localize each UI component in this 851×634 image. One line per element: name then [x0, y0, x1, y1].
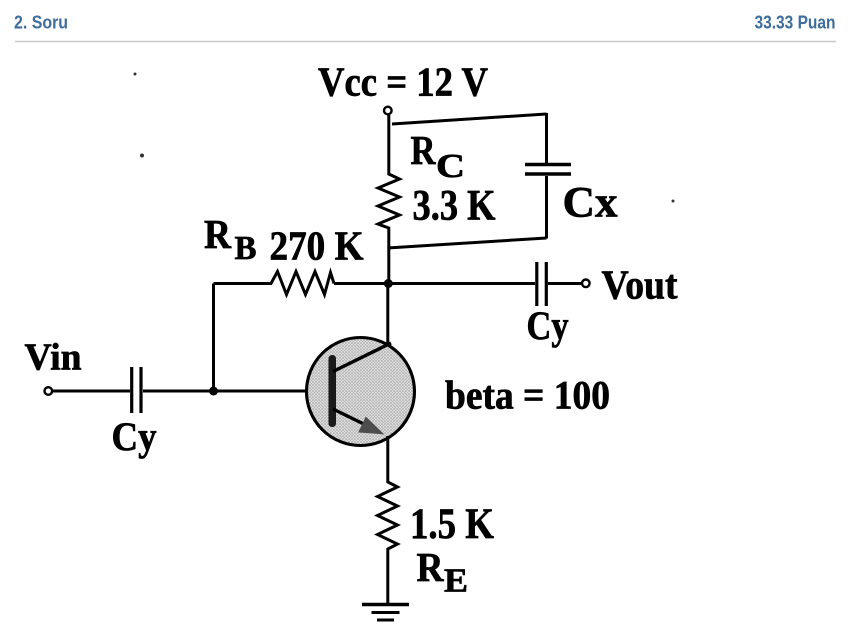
- wire Cy output to Vout terminal: [548, 282, 582, 285]
- node collector junction: [384, 279, 393, 288]
- wire box bottom (Cx to collector branch): [388, 238, 547, 248]
- wire base node to RB left: [214, 282, 268, 285]
- wire collector node to Cy output: [389, 282, 535, 285]
- svg-text:Vin: Vin: [25, 337, 82, 379]
- svg-text:1.5 K: 1.5 K: [410, 501, 494, 548]
- wire Vcc terminal to RC: [387, 115, 390, 171]
- svg-text:Vout: Vout: [602, 262, 678, 308]
- svg-text:Vcc = 12 V: Vcc = 12 V: [318, 59, 488, 105]
- wire Cx top vertical: [545, 113, 548, 163]
- wire Cx bottom vertical: [545, 176, 548, 239]
- transistor Q1: [307, 338, 415, 446]
- wire Q1 emitter down to RE: [386, 436, 389, 478]
- capacitor Cx: [525, 165, 571, 175]
- Vout terminal: [582, 280, 590, 288]
- capacitor Cy input: [132, 367, 141, 413]
- label RB 270 K: [204, 211, 364, 269]
- Vcc terminal: [384, 107, 392, 115]
- header rule: [15, 41, 836, 43]
- node base junction: [209, 387, 218, 396]
- svg-text:R: R: [204, 211, 231, 257]
- wire base vertical (RB node down to base node): [212, 284, 215, 392]
- label RE: [417, 544, 469, 600]
- wire RE to ground: [386, 554, 389, 603]
- svg-text:33.33 Puan: 33.33 Puan: [755, 12, 836, 32]
- svg-text:beta = 100: beta = 100: [445, 373, 610, 418]
- svg-text:3.3 K: 3.3 K: [413, 183, 496, 230]
- svg-text:Cx: Cx: [563, 180, 619, 227]
- svg-text:2. Soru: 2. Soru: [14, 12, 68, 32]
- wire Cy input to base of Q1: [143, 390, 329, 393]
- capacitor Cy output: [537, 262, 547, 306]
- resistor RC: [378, 171, 400, 232]
- ground: [362, 605, 409, 621]
- wire box top (Vcc node to Cx top corner): [392, 114, 547, 124]
- svg-text:B: B: [235, 230, 257, 267]
- Vin terminal: [45, 387, 53, 395]
- svg-text:Cy: Cy: [112, 414, 157, 459]
- svg-text:Cy: Cy: [527, 303, 569, 348]
- resistor RE: [378, 478, 398, 554]
- svg-text:270 K: 270 K: [270, 223, 364, 269]
- svg-text:E: E: [444, 563, 468, 600]
- wire RB right to collector node: [334, 282, 389, 285]
- resistor RB: [267, 272, 334, 295]
- wire RC bottom to collector node: [387, 232, 390, 284]
- svg-text:R: R: [417, 544, 444, 590]
- svg-text:C: C: [436, 148, 465, 185]
- label RC: [411, 127, 466, 185]
- wire Vin terminal to Cy input: [53, 390, 130, 393]
- wire collector node down to Q1 collector: [386, 284, 389, 345]
- svg-text:R: R: [411, 127, 436, 173]
